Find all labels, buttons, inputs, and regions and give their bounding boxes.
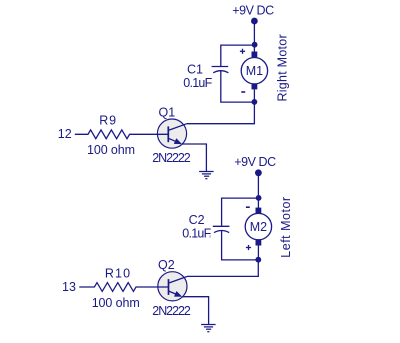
svg-text:0.1uF: 0.1uF — [183, 76, 212, 90]
svg-text:2N2222: 2N2222 — [152, 151, 191, 165]
svg-text:+9V DC: +9V DC — [232, 3, 274, 17]
wire: +9V down to junction — [257, 173, 259, 198]
svg-text:+9V DC: +9V DC — [234, 155, 276, 169]
node: +9V terminal dot (left) — [255, 169, 262, 176]
wire: Q2 emitter to ground — [182, 297, 208, 325]
svg-text:100 ohm: 100 ohm — [87, 143, 135, 157]
transistor Q2 — [158, 272, 187, 301]
motor M2 — [245, 208, 271, 246]
wire: bottom junction down and left to Q2 collector — [187, 260, 258, 277]
ground (Q1 emitter) — [199, 172, 214, 179]
svg-text:M1: M1 — [246, 64, 263, 78]
resistor R9 — [75, 130, 169, 139]
wire: junction down to M1 top terminal — [253, 45, 255, 52]
wire: +9V down to junction — [253, 21, 255, 45]
label - (M1 negative) — [241, 91, 245, 93]
svg-text:R9: R9 — [99, 114, 117, 128]
svg-text:R10: R10 — [105, 267, 131, 281]
label + (M1 positive) — [240, 49, 245, 54]
wire: junction to C1 branch (top horizontal) — [221, 45, 255, 66]
capacitor C1 — [212, 67, 229, 73]
stray period after 0.1uF — [209, 235, 211, 237]
capacitor C2 — [213, 226, 230, 232]
label - (M2 negative) — [246, 206, 250, 208]
svg-text:0.1uF: 0.1uF — [182, 226, 211, 240]
svg-text:C1: C1 — [187, 63, 203, 77]
svg-text:2N2222: 2N2222 — [152, 304, 191, 318]
wire: C1 bottom lead down and to bottom junction — [221, 70, 255, 102]
svg-text:M2: M2 — [250, 220, 267, 234]
wire: junction down to M2 top terminal — [257, 198, 259, 208]
wire: C2 bottom lead down and to bottom junction — [222, 230, 259, 260]
node: +9V terminal dot (right) — [251, 18, 258, 25]
junction: bottom of M1/C1 parallel pair — [252, 99, 258, 105]
wire: bottom junction down and left to Q1 collector — [187, 102, 255, 124]
junction: top of M1/C1 parallel pair — [252, 42, 258, 48]
wire: junction to C2 branch (top horizontal) — [222, 198, 259, 226]
svg-text:12: 12 — [58, 127, 72, 141]
svg-text:Right Motor: Right Motor — [276, 34, 290, 101]
svg-text:Q1: Q1 — [159, 105, 176, 119]
resistor R10 — [79, 283, 168, 292]
ground (Q2 emitter) — [201, 325, 216, 332]
svg-text:Q2: Q2 — [158, 258, 175, 272]
motor M1 — [241, 52, 267, 90]
junction: bottom of M2/C2 parallel pair — [255, 257, 261, 263]
wire: M1 bottom terminal to bottom junction — [253, 89, 255, 102]
svg-text:C2: C2 — [189, 213, 205, 227]
svg-text:13: 13 — [62, 280, 76, 294]
svg-text:100 ohm: 100 ohm — [92, 296, 140, 310]
svg-text:Left Motor: Left Motor — [279, 196, 293, 257]
wire: M2 bottom terminal to bottom junction — [257, 246, 259, 260]
transistor Q1 — [157, 119, 186, 148]
label + (M2 positive) — [246, 245, 251, 250]
wire: Q1 emitter to ground — [182, 144, 206, 171]
junction: top of M2/C2 parallel pair — [256, 195, 262, 201]
